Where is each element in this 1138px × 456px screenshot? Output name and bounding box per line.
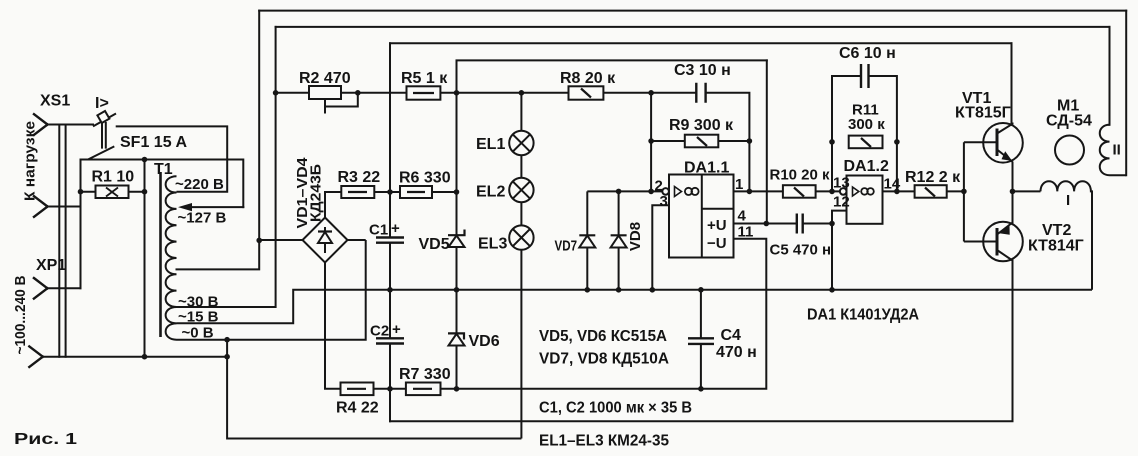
svg-text:13: 13 [833, 175, 850, 192]
capacitor C3 [696, 83, 705, 103]
svg-text:R5 1 к: R5 1 к [401, 70, 448, 87]
wire output line to motor [1013, 190, 1041, 192]
svg-text:SF1 15 A: SF1 15 A [120, 134, 187, 151]
svg-text:2: 2 [655, 178, 663, 195]
svg-text:EL1–EL3 КМ24-35: EL1–EL3 КМ24-35 [539, 433, 669, 450]
lamp column wire [520, 93, 522, 439]
resistor R2 variable [309, 86, 358, 114]
svg-text:3: 3 [660, 193, 668, 210]
svg-text:КТ815Г: КТ815Г [955, 105, 1011, 122]
svg-text:EL3: EL3 [478, 236, 507, 253]
bridge rectifier VD1-VD4 [259, 192, 366, 389]
wire R1 right riser x=144.5 [144, 160, 146, 357]
wire pin3 [652, 205, 669, 289]
wire bridge bottom riser [325, 263, 341, 389]
wire rail2 [276, 26, 1110, 28]
wire riser C3 R9 pin2 [650, 93, 652, 192]
wire cable line A [58, 125, 60, 357]
svg-text:−U: −U [707, 235, 727, 252]
wire rail2 left riser to 30V tap [177, 27, 276, 307]
arrowhead 127V tap [178, 203, 192, 211]
svg-text:II: II [1113, 142, 1121, 159]
wire R4 R7 line [374, 239, 767, 389]
wire base bus [963, 142, 965, 241]
svg-text:К нагрузке: К нагрузке [22, 121, 39, 201]
svg-text:VD6: VD6 [469, 333, 500, 350]
svg-text:+: + [391, 220, 400, 237]
wire main rail y=93 [276, 93, 750, 192]
diode VD7 [579, 191, 595, 289]
svg-text:+: + [392, 321, 401, 338]
wire rail1 left riser down to winding tap [177, 11, 260, 270]
svg-text:14: 14 [884, 176, 901, 193]
svg-text:300 к: 300 к [848, 116, 885, 133]
svg-text:VT2: VT2 [1042, 222, 1071, 239]
svg-text:1: 1 [735, 176, 743, 193]
wire 0V tap [177, 240, 366, 340]
wire +U riser from rail4 down to pin4 [766, 60, 768, 223]
zener VD6 [448, 333, 465, 345]
wire rail1 right drop to winding II bottom [1125, 11, 1127, 176]
wire left vertical x=80.5 [80, 160, 82, 289]
wire rail3 right drop to VT1 collector [1011, 43, 1013, 122]
wire 15V tap and common rail [177, 290, 1093, 324]
motor M1 [1055, 136, 1084, 165]
resistor R11 and C6 loop [832, 64, 897, 191]
svg-text:4: 4 [738, 208, 747, 225]
resistor R1 (fusible, X inside) [81, 186, 145, 199]
wire bridge left corner [259, 239, 302, 241]
svg-text:R4 22: R4 22 [336, 400, 379, 417]
svg-text:I>: I> [95, 95, 109, 112]
svg-text:DA1 К1401УД2А: DA1 К1401УД2А [807, 307, 919, 324]
svg-text:C1, C2 1000 мк × 35 В: C1, C2 1000 мк × 35 В [539, 400, 692, 417]
svg-text:T1: T1 [154, 161, 173, 178]
wire rail4 [457, 59, 767, 61]
op-amp DA1.2 [840, 176, 883, 224]
svg-text:R6 330: R6 330 [399, 170, 451, 187]
svg-text:VD8: VD8 [627, 222, 644, 251]
svg-text:C2: C2 [370, 323, 389, 340]
op-amp DA1.1 [662, 175, 733, 258]
connector XS1 pin 1 arrow [34, 114, 48, 135]
zener VD5 [448, 230, 465, 248]
wire XS1 bottom [48, 206, 81, 208]
transformer T1 core [159, 172, 162, 337]
svg-text:~220 В: ~220 В [175, 176, 224, 193]
svg-text:EL1: EL1 [476, 136, 505, 153]
inductor winding II [1100, 125, 1110, 175]
svg-text:~0 В: ~0 В [182, 325, 214, 342]
svg-text:СД-54: СД-54 [1046, 113, 1092, 130]
wire bridge right corner [348, 239, 366, 241]
wire cable line B [65, 125, 67, 357]
lamp EL1 [509, 131, 533, 155]
transistor VT1 [964, 123, 1023, 192]
wire bottom line to VT2 collector [390, 260, 1013, 421]
svg-text:~127 В: ~127 В [178, 210, 227, 227]
svg-text:R8 20 к: R8 20 к [560, 70, 616, 87]
resistor R9 [651, 135, 749, 148]
wire C1 C2 bus x=390 [389, 43, 391, 421]
connector XP1 pin 2 arrow [29, 346, 43, 367]
svg-text:R10 20 к: R10 20 к [770, 167, 831, 184]
wire bridge top to R3 line [325, 192, 341, 218]
wire pin4 line [734, 223, 797, 225]
diode VD8 [611, 191, 627, 289]
wire pin2 line with VD7 VD8 [587, 190, 662, 192]
svg-text:R3 22: R3 22 [338, 169, 381, 186]
VD5 VD6 bus [456, 60, 458, 388]
inductor winding I [1041, 181, 1093, 290]
svg-text:Рис. 1: Рис. 1 [14, 431, 77, 448]
wire XS1 top to SF1 [48, 124, 94, 126]
svg-text:R9 300 к: R9 300 к [669, 117, 734, 134]
wire SF1 lower wire [81, 160, 244, 208]
svg-text:~100...240 В: ~100...240 В [12, 275, 29, 354]
resistor R3 [341, 186, 400, 198]
svg-text:R7 330: R7 330 [399, 366, 451, 383]
capacitor C5 [797, 214, 803, 234]
transistor VT2 [964, 191, 1023, 289]
resistor R6 [400, 186, 457, 198]
transformer T1 winding [166, 176, 177, 340]
svg-text:470 н: 470 н [716, 344, 757, 361]
svg-text:C1: C1 [369, 222, 388, 239]
resistor R4 [341, 383, 374, 396]
svg-text:VD5, VD6 КС515А: VD5, VD6 КС515А [539, 328, 667, 345]
svg-text:R12 2 к: R12 2 к [905, 169, 961, 186]
svg-text:~15 В: ~15 В [178, 309, 219, 326]
wire 127V tap line [184, 206, 243, 208]
wire XP1 top [47, 287, 80, 289]
wire XP1 bottom to T1 area [43, 356, 227, 358]
svg-text:C4: C4 [721, 327, 742, 344]
svg-text:XS1: XS1 [40, 93, 70, 110]
wire winding II bottom to rail1 drop [1110, 174, 1127, 176]
svg-text:11: 11 [738, 223, 754, 240]
breaker SF1 [88, 111, 227, 192]
resistor R7 [406, 383, 441, 396]
svg-text:EL2: EL2 [476, 184, 505, 201]
svg-text:DA1.1: DA1.1 [684, 160, 729, 177]
svg-text:VD7, VD8 КД510А: VD7, VD8 КД510А [539, 351, 669, 368]
svg-text:R2 470: R2 470 [299, 70, 351, 87]
capacitor C2 [376, 338, 404, 343]
wire pin1 line [734, 190, 783, 192]
svg-text:12: 12 [833, 194, 850, 211]
wire rail1 top [259, 10, 1126, 12]
resistor R8 [569, 86, 604, 99]
wire pin14 line [883, 190, 915, 192]
svg-text:R1 10: R1 10 [92, 169, 135, 186]
svg-text:C6 10 н: C6 10 н [839, 45, 896, 62]
connector XP1 pin 1 arrow [34, 278, 48, 299]
wire C5 right pin12 riser [803, 211, 847, 290]
wire 0V vertical to XP1 and lamps return [227, 340, 521, 439]
capacitor C4 [688, 290, 714, 389]
capacitor C1 [376, 238, 404, 243]
lamp EL3 [509, 225, 533, 249]
lamp EL2 [509, 178, 533, 202]
svg-text:C3 10 н: C3 10 н [674, 62, 731, 79]
connector XS1 pin 2 arrow [34, 196, 48, 217]
wire rail2 right drop to winding II top [1109, 27, 1111, 125]
svg-text:I: I [1066, 192, 1070, 209]
svg-text:DA1.2: DA1.2 [844, 158, 889, 175]
resistor R5 [407, 86, 441, 99]
svg-text:КД243Б: КД243Б [308, 164, 325, 222]
resistor R12 [915, 185, 964, 198]
svg-text:VD5: VD5 [419, 236, 450, 253]
svg-text:C5 470 н: C5 470 н [770, 242, 832, 259]
wire SF1 upper right wire to 220V tap [116, 126, 228, 191]
svg-text:КТ814Г: КТ814Г [1028, 238, 1084, 255]
wire rail3 [390, 42, 1012, 44]
svg-text:XP1: XP1 [36, 257, 66, 274]
resistor R10 [783, 185, 840, 198]
svg-text:VD7: VD7 [555, 238, 578, 255]
svg-text:+U: +U [707, 217, 727, 234]
